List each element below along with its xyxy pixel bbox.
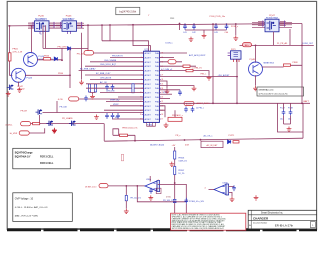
wire fet drop xyxy=(39,115,41,124)
svg-text:bq24745-2.8th: bq24745-2.8th xyxy=(119,9,136,13)
wire IC row101 xyxy=(106,100,144,102)
svg-text:PR_PACK_s: PR_PACK_s xyxy=(172,114,183,117)
wire divider rail xyxy=(90,93,96,95)
svg-text:PC40_PC45_10u: PC40_PC45_10u xyxy=(210,16,226,18)
ground right 81 xyxy=(165,89,170,94)
cap bus C42 xyxy=(192,24,196,30)
IC U31 pin numbers xyxy=(140,53,163,121)
oval INT_DC xyxy=(99,184,108,188)
junction opamp1 x126 xyxy=(125,185,127,187)
wire Q43 collector row xyxy=(25,74,70,76)
oval VDD row99 xyxy=(69,97,79,101)
cap cluster b xyxy=(191,107,195,113)
cap opamp1 out xyxy=(149,188,153,194)
cap PC47 xyxy=(282,110,286,116)
sheet bottom border line2 xyxy=(7,228,317,230)
svg-text:PL_PR_AD: PL_PR_AD xyxy=(277,42,288,45)
junction bus g xyxy=(193,23,195,25)
resistor right 66 xyxy=(183,65,190,67)
svg-text:PL271: PL271 xyxy=(229,135,236,137)
cap bus C43 xyxy=(214,24,218,30)
svg-text:ACDRV_BQ24: ACDRV_BQ24 xyxy=(150,144,165,147)
ground PQ40 xyxy=(52,128,57,133)
ground caps rail2 xyxy=(189,37,194,42)
junction bus h xyxy=(212,23,214,25)
wire caps rail xyxy=(185,29,227,31)
wire v112 xyxy=(113,129,119,136)
svg-text:BQ24746A-1/Y: BQ24746A-1/Y xyxy=(15,156,31,159)
mosfet Q45 bottom stub xyxy=(40,31,43,34)
junction x70 xyxy=(69,74,71,76)
mosfet Q45 box xyxy=(35,21,50,32)
resistor left opamp1 xyxy=(121,154,123,160)
svg-text:PR_CHG: PR_CHG xyxy=(58,46,67,48)
svg-text:CHARGER: CHARGER xyxy=(253,216,269,220)
wire row y40.8 to IC top xyxy=(102,41,149,51)
wire IC row88 xyxy=(86,87,144,89)
svg-text:(BAT_OVP=1.24 *VDR): (BAT_OVP=1.24 *VDR) xyxy=(15,214,38,217)
oval right row62 xyxy=(168,60,176,64)
svg-text:ER-IB-LA-27th: ER-IB-LA-27th xyxy=(275,224,294,228)
wire triple bus through Q47 xyxy=(252,22,292,27)
wire caps rail drop xyxy=(203,30,205,33)
wire drop x213 xyxy=(212,23,214,103)
junction bus2 x302 xyxy=(301,45,303,47)
diode-res right of box xyxy=(228,140,231,144)
wire Q44 base row xyxy=(37,59,62,61)
wire divider chain xyxy=(174,147,176,183)
cap right 90 xyxy=(178,90,182,96)
sheet bottom thick border xyxy=(7,228,317,231)
IC U31 pin stubs xyxy=(142,53,161,119)
ground x236 xyxy=(233,36,238,41)
wire BATT row xyxy=(159,102,310,104)
wire IC row79 xyxy=(90,78,144,80)
note box cells xyxy=(13,148,71,169)
transistor PQ43 xyxy=(12,68,26,82)
cap on loop x186 xyxy=(185,198,189,204)
wire cap box xyxy=(278,103,304,132)
junction bus i xyxy=(215,23,217,25)
mosfet Q47 left pins xyxy=(258,22,264,26)
resistor chain 2 xyxy=(174,167,176,175)
junction bus j xyxy=(226,23,228,25)
wire IC bottom rail xyxy=(147,125,156,127)
mosfet Q45 right pins xyxy=(49,23,55,27)
ground right 85 xyxy=(192,86,197,91)
wire IC right row76 xyxy=(159,76,237,78)
wire IC right row81 xyxy=(159,81,167,89)
svg-text:4 R20: 4 R20 xyxy=(166,196,171,198)
wire IC pin row53 xyxy=(94,52,144,54)
wire IC right row57 xyxy=(159,56,174,58)
oval PR_S5 xyxy=(84,51,94,55)
svg-text:AC_OK_s: AC_OK_s xyxy=(204,134,213,137)
ground opamp2 xyxy=(230,197,235,202)
ground PQ42 xyxy=(6,91,11,96)
wire bus2 AD row xyxy=(240,44,314,46)
op-amp U32A xyxy=(145,181,157,191)
ground Q43 xyxy=(17,88,22,93)
svg-text:3.43K_1%: 3.43K_1% xyxy=(178,160,187,162)
svg-text:FOR 9 CELL: FOR 9 CELL xyxy=(40,163,54,165)
resistor divider B xyxy=(94,84,96,92)
svg-text:PR36 0.010_1%: PR36 0.010_1% xyxy=(122,128,137,130)
cap bus C44 xyxy=(225,24,229,30)
svg-text:17: 17 xyxy=(161,119,163,121)
cap PC48 xyxy=(289,110,293,116)
wire loop x186 to box xyxy=(185,204,187,213)
junction bus141 b xyxy=(184,139,186,141)
svg-text:SET BY PR36 SENSE 0.010 OHM 4.: SET BY PR36 SENSE 0.010 OHM 4. BQ24745 S… xyxy=(172,227,224,230)
svg-text:ACDET: ACDET xyxy=(145,109,152,112)
wire Q48 base row xyxy=(262,65,302,67)
wire IC right row85 xyxy=(159,84,194,86)
svg-text:PC47: PC47 xyxy=(280,108,285,110)
wire chain to loop xyxy=(174,183,176,213)
transistor PQ44 xyxy=(24,53,38,67)
svg-text:DCIN_s: DCIN_s xyxy=(166,43,173,45)
svg-text:PROCHOT#: PROCHOT# xyxy=(112,55,124,57)
svg-text:SI4435BDY: SI4435BDY xyxy=(62,19,74,21)
resistor cluster xyxy=(168,117,182,121)
svg-text:PR_B7: PR_B7 xyxy=(21,111,28,113)
note box right xyxy=(257,87,304,96)
wire Q48 emitter xyxy=(255,75,257,86)
svg-text:18: 18 xyxy=(161,114,163,116)
wire long bus y141 xyxy=(104,138,303,141)
svg-text:Hi_VDR: Hi_VDR xyxy=(10,133,18,135)
red note box xyxy=(171,213,246,230)
junction x179 xyxy=(179,23,181,25)
wire right rail x302 xyxy=(301,24,303,104)
resistor right 70 xyxy=(186,69,193,71)
resistor PR41 vertical xyxy=(8,53,11,61)
svg-text:PR43: PR43 xyxy=(44,55,50,57)
svg-text:PR_UGATE: PR_UGATE xyxy=(62,117,73,120)
svg-text:SRP: SRP xyxy=(115,117,120,119)
svg-text:PR_s: PR_s xyxy=(176,135,181,137)
junction BATT x213 xyxy=(212,102,214,104)
svg-text:VREF_BQ: VREF_BQ xyxy=(110,99,120,101)
svg-text:ACDET: ACDET xyxy=(145,96,152,99)
wire opamp1 drop x126 xyxy=(125,186,127,196)
svg-text:PGND: PGND xyxy=(147,125,153,127)
cap cluster a xyxy=(184,107,188,113)
wire row135 xyxy=(113,134,135,136)
small comp rect xyxy=(156,188,161,193)
wire drop x133 xyxy=(133,25,151,51)
wire fet row113 xyxy=(43,112,144,114)
wire opamp2 out xyxy=(229,187,234,197)
wire drop x88 xyxy=(87,26,89,54)
mosfet Q46 right pins xyxy=(77,23,83,27)
small fet PQ40 xyxy=(46,121,53,126)
wire IC right row108 xyxy=(159,106,165,112)
wire IC row84 xyxy=(86,83,144,85)
svg-text:BATT: BATT xyxy=(304,100,310,103)
ground caps rail xyxy=(202,33,207,38)
svg-text:ACP_ACN_DROP: ACP_ACN_DROP xyxy=(189,54,206,57)
wire opamp2 in xyxy=(209,189,215,191)
svg-text:PR_10K: PR_10K xyxy=(60,107,68,109)
title block vline left xyxy=(250,210,252,229)
junction fet drop xyxy=(39,123,41,125)
wire Q48 collector xyxy=(255,45,257,62)
svg-text:+3V: +3V xyxy=(172,145,176,147)
title block frame xyxy=(248,210,316,229)
svg-text:CHG_EN: CHG_EN xyxy=(106,91,115,93)
wire cluster v165 xyxy=(165,110,175,117)
svg-text:PR44: PR44 xyxy=(58,73,64,75)
wire drop x102 xyxy=(101,26,103,41)
wire row123 to bus xyxy=(103,124,105,141)
junction bus141 a xyxy=(134,140,136,142)
svg-text:PC40_s: PC40_s xyxy=(231,26,238,28)
wire caps stubs xyxy=(284,103,291,124)
small fet PQ41 xyxy=(36,109,43,114)
wire drop x110 xyxy=(109,26,111,41)
junction bus left xyxy=(9,25,11,27)
mosfet Q46 bottom stub xyxy=(68,31,71,34)
ground mid xyxy=(94,115,99,120)
diode PD41 xyxy=(68,47,71,51)
svg-text:ACDET: ACDET xyxy=(145,87,152,90)
cap bus C41 xyxy=(183,24,187,30)
svg-text:PQ46: PQ46 xyxy=(66,16,72,18)
cap opamp2 xyxy=(232,185,236,191)
wire IC right row62 xyxy=(159,61,182,63)
oval ACDET xyxy=(184,101,194,105)
wire IC right row66 xyxy=(159,65,196,67)
ground PR33 xyxy=(124,209,129,214)
svg-text:1) PD-05 (5.080 V C32,C31,LL4.: 1) PD-05 (5.080 V C32,C31,LL4.2V) xyxy=(259,93,288,95)
svg-text:BQ24745Charge: BQ24745Charge xyxy=(15,151,33,154)
resistor PR35 xyxy=(120,134,128,136)
wire IC row57 xyxy=(110,56,144,58)
wire IC row92 xyxy=(100,92,144,94)
ground Q48 xyxy=(253,86,258,91)
svg-text:SI4435BDY: SI4435BDY xyxy=(35,19,47,21)
IC U31 pin names xyxy=(145,52,160,121)
junction bus k xyxy=(235,23,237,25)
red note box text xyxy=(172,213,227,230)
wire IC right row94 xyxy=(159,93,172,95)
svg-text:10u: 10u xyxy=(280,119,283,121)
svg-text:EC_SMB_DATA7: EC_SMB_DATA7 xyxy=(80,68,96,71)
wire IC row105 xyxy=(110,105,144,107)
oval Hi_VDR xyxy=(19,131,29,135)
title block line2 xyxy=(248,219,316,221)
wire drop Q46 source xyxy=(81,33,83,80)
svg-text:ACDET: ACDET xyxy=(145,70,152,73)
resistor PR40 xyxy=(33,122,40,124)
svg-text:CHG_ACOK: CHG_ACOK xyxy=(100,76,112,79)
svg-text:+3VL_ACDET: +3VL_ACDET xyxy=(218,74,231,77)
svg-text:AC_IN_DET: AC_IN_DET xyxy=(206,144,218,147)
svg-text:4.7K_1_W: 4.7K_1_W xyxy=(12,52,22,54)
ground row133 xyxy=(52,128,57,133)
svg-text:CHG_SCLK_BQT: CHG_SCLK_BQT xyxy=(100,64,117,66)
wire drop x45 xyxy=(44,25,46,48)
IC U31 body xyxy=(144,51,160,122)
svg-text:12 PIN_s: 12 PIN_s xyxy=(196,108,204,110)
mosfet Q46 box xyxy=(62,21,77,32)
svg-text:Document Number: Document Number xyxy=(253,221,268,224)
ground divider xyxy=(90,94,95,99)
svg-text:MMBT3904: MMBT3904 xyxy=(264,62,275,64)
svg-text:4 CELL: 4 CELL xyxy=(5,125,13,127)
svg-text:4: 4 xyxy=(205,188,206,190)
wire drop x179 xyxy=(179,23,181,30)
ground cap box xyxy=(287,127,292,132)
ground chain mid xyxy=(169,162,174,167)
resistor divider A xyxy=(88,84,90,92)
svg-text:CHG_SDATA: CHG_SDATA xyxy=(104,59,117,62)
wire IC row97 xyxy=(118,96,144,98)
svg-text:4 CELL : 19.80V=> BAT_OV= 4.9: 4 CELL : 19.80V=> BAT_OV= 4.9 xyxy=(15,206,48,209)
svg-text:4.7_OHM_s3: 4.7_OHM_s3 xyxy=(161,69,172,71)
svg-text:ACDET: ACDET xyxy=(145,52,152,55)
title block line1 xyxy=(248,214,316,216)
svg-text:ACDET: ACDET xyxy=(145,92,152,95)
svg-text:PC306_0.1u_50V: PC306_0.1u_50V xyxy=(189,201,205,203)
ground cap opamp1 xyxy=(148,195,153,200)
junction bus c xyxy=(101,24,103,26)
wire opamp1 supply stub xyxy=(149,176,151,182)
wire x135 to bus xyxy=(134,135,136,141)
wire row123 xyxy=(31,123,105,125)
svg-text:ACDET: ACDET xyxy=(145,74,152,77)
svg-text:4 CE: 4 CE xyxy=(58,99,63,101)
junction bus a xyxy=(31,25,33,27)
wire IC row110 xyxy=(104,109,144,111)
svg-text:VDDP: VDDP xyxy=(113,104,119,106)
diode D42 xyxy=(54,57,57,61)
svg-text:PR_10K_1%: PR_10K_1% xyxy=(163,200,174,202)
svg-text:PQ48: PQ48 xyxy=(250,59,256,61)
small fet PQ39 xyxy=(69,121,76,126)
wire IC row66 xyxy=(85,65,144,67)
svg-text:ACDET: ACDET xyxy=(145,118,152,121)
cap between rows xyxy=(105,84,109,90)
transistor PQ48 xyxy=(249,62,263,76)
wire drop x236 gnd xyxy=(235,23,237,35)
svg-text:PR48: PR48 xyxy=(293,62,299,64)
wire drop x62 xyxy=(61,48,63,60)
ground cluster xyxy=(164,123,169,128)
junction Q48 top xyxy=(255,45,257,47)
junction BATT x302 xyxy=(301,102,303,104)
svg-text:U32B: U32B xyxy=(223,183,229,185)
junction x62 xyxy=(61,59,63,61)
wire PR33 gnd xyxy=(125,201,127,209)
svg-text:DCBJ_OUT: DCBJ_OUT xyxy=(303,43,314,45)
svg-text:ACDET: ACDET xyxy=(145,83,152,86)
connector box red pins xyxy=(234,59,240,62)
ground Q46 source xyxy=(79,80,84,85)
ground right 70 xyxy=(207,75,212,80)
wire drop Q44 collector xyxy=(31,25,33,53)
resistor PR48 xyxy=(284,64,291,66)
svg-text:ACDET_IN19.5: ACDET_IN19.5 xyxy=(197,102,210,105)
resistor row88 xyxy=(132,84,134,93)
oval AD+ xyxy=(243,43,252,47)
wire IC row70 xyxy=(79,70,144,72)
resistor PR43 xyxy=(44,58,51,60)
wire drop x43 xyxy=(42,25,44,48)
wire Q43 emitter xyxy=(18,82,20,87)
svg-text:PQ43: PQ43 xyxy=(27,78,33,80)
wire Q47 source drop xyxy=(289,29,291,45)
op-amp U32B xyxy=(214,185,226,195)
svg-text:AC_OK: AC_OK xyxy=(100,81,107,84)
wire left drop to R/Q2 xyxy=(10,26,13,75)
wire row99 xyxy=(79,98,144,100)
svg-text:U32A: U32A xyxy=(146,178,152,181)
svg-text:PJP1: PJP1 xyxy=(231,49,236,51)
wire top bus VIN xyxy=(8,24,302,26)
note box bq24745-1/4th xyxy=(116,7,140,14)
svg-text:PR_10u_1%: PR_10u_1% xyxy=(130,197,141,199)
svg-text:ACDET: ACDET xyxy=(145,78,152,81)
junction chain bottom xyxy=(174,182,176,184)
svg-text:r: r xyxy=(149,13,150,17)
junction right 76 xyxy=(236,76,238,78)
wire IC row118 xyxy=(112,118,144,120)
junction x237 BATT xyxy=(236,102,238,104)
junction bus b xyxy=(87,24,89,26)
svg-text:PR41: PR41 xyxy=(12,49,18,51)
diode on loop xyxy=(173,199,176,202)
wire IC right row90 xyxy=(159,89,180,91)
junction bus e xyxy=(132,24,134,26)
wire feedback loop xyxy=(137,184,186,201)
wire Q47 gate drop xyxy=(273,32,275,46)
svg-text:15: 15 xyxy=(140,114,142,116)
cap row99 xyxy=(84,96,88,102)
svg-text:1K_1%: 1K_1% xyxy=(178,173,184,175)
wire v57 chain xyxy=(56,101,58,113)
wire IC right row53 xyxy=(159,52,187,54)
wire x237 down xyxy=(236,59,238,103)
svg-text:ACDET: ACDET xyxy=(145,56,152,59)
mosfet Q47 right pins xyxy=(280,22,286,26)
box AC small xyxy=(201,141,223,147)
connector box right xyxy=(231,51,242,59)
svg-text:EC_SMB_CLK7: EC_SMB_CLK7 xyxy=(96,73,111,75)
svg-text:PQ45: PQ45 xyxy=(38,16,44,18)
title block rev cell xyxy=(310,222,315,228)
resistor PR33 xyxy=(125,195,127,200)
cap row under xyxy=(105,113,109,119)
junction bus141 c xyxy=(200,139,202,141)
mosfet PQ42 small xyxy=(7,85,14,90)
mosfet Q45 left pins xyxy=(28,23,34,27)
wire row133 xyxy=(29,128,45,133)
wire IC row75 xyxy=(85,74,144,76)
wire triple bus through Q45/Q46 xyxy=(28,23,84,28)
svg-text:ACDET: ACDET xyxy=(145,65,152,68)
svg-text:FDS6679AZ: FDS6679AZ xyxy=(266,17,279,20)
svg-text:PR3_s: PR3_s xyxy=(201,73,207,75)
IC bottom pin stubs xyxy=(147,122,156,126)
svg-text:ACDET: ACDET xyxy=(145,105,152,108)
wire IC row62 xyxy=(90,61,144,63)
junction bus d xyxy=(109,24,111,26)
svg-text:ACDET: ACDET xyxy=(145,61,152,64)
svg-text:OVP Voltage : 10: OVP Voltage : 10 xyxy=(15,197,34,200)
